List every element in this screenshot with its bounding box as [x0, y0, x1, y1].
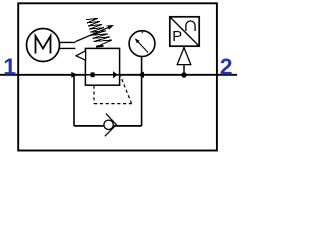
gauge needle arrowhead — [135, 38, 140, 43]
flow path line inside valve — [85, 74, 119, 76]
wire bypass left vertical — [73, 75, 75, 126]
sensor diagonal — [171, 18, 199, 46]
wire bypass bottom horizontal — [74, 125, 142, 127]
regulator valve body V1 — [85, 48, 119, 85]
frame border — [18, 3, 217, 150]
sensor hollow triangle — [177, 48, 191, 65]
svg-text:2: 2 — [220, 53, 233, 79]
svg-text:P: P — [172, 29, 182, 45]
junction arrow right — [138, 72, 144, 78]
junction arrow left — [71, 72, 77, 78]
wire main line port 1 to port 2 — [0, 74, 237, 76]
motor M1 circle — [27, 29, 60, 62]
gauge needle — [138, 42, 148, 53]
shaft double line upper — [59, 41, 76, 43]
flow path arrowhead — [113, 71, 118, 78]
check valve seat — [105, 114, 117, 137]
spring end dash on valve top — [96, 45, 104, 48]
spring zigzag — [86, 18, 112, 46]
pilot dashed line diagonal to output — [121, 76, 132, 103]
gauge top tick — [141, 31, 143, 33]
pressure sensor B1 square — [170, 17, 199, 46]
sensor connector wire — [183, 65, 185, 75]
wire gauge and bypass right vertical — [141, 57, 143, 126]
pressure gauge Z1 circle — [129, 31, 155, 57]
sensor curve glyph — [186, 21, 195, 31]
sensor stem — [183, 46, 185, 49]
adjustment arrow line through spring — [76, 27, 110, 41]
pilot dashed line horizontal — [94, 103, 132, 105]
junction dot sensor — [181, 72, 186, 77]
check valve ball — [104, 120, 113, 129]
flow path block mark — [91, 72, 95, 77]
shaft double line lower — [59, 47, 76, 49]
spring seat hollow triangle — [76, 51, 86, 60]
svg-text:1: 1 — [3, 53, 16, 79]
motor M letter — [36, 36, 51, 54]
adjustment arrowhead — [107, 25, 114, 30]
pilot dashed line vertical from valve bottom — [93, 86, 95, 104]
